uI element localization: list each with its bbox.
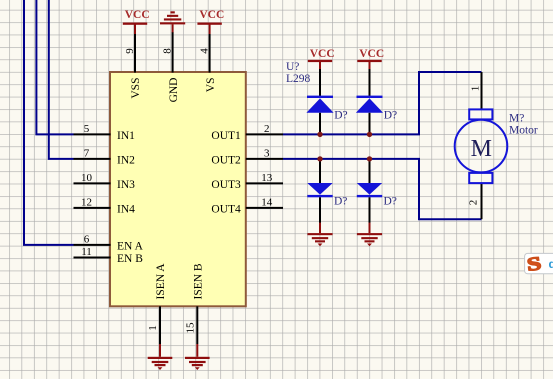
- svg-text:IN3: IN3: [117, 179, 135, 191]
- svg-text:11: 11: [81, 246, 92, 258]
- pin 7 IN2: [74, 147, 136, 166]
- svg-text:15: 15: [184, 322, 196, 334]
- svg-text:14: 14: [261, 196, 273, 208]
- wire net IN1 from top edge to IN1 pin: [36, 0, 73, 134]
- svg-text:13: 13: [261, 172, 273, 184]
- power port VCC: [357, 48, 384, 71]
- svg-text:D?: D?: [384, 195, 397, 207]
- svg-text:4: 4: [198, 48, 210, 54]
- pin 2 OUT1: [211, 123, 283, 142]
- pin 12 IN4: [74, 196, 136, 215]
- motor M? body: terminals, circle, M letter: [455, 109, 508, 183]
- svg-text:1: 1: [147, 325, 159, 331]
- svg-text:7: 7: [84, 147, 90, 159]
- svg-text:2: 2: [468, 200, 480, 206]
- pin 14 OUT4: [211, 196, 283, 215]
- svg-text:d: d: [549, 257, 553, 271]
- wire net EN A from top edge to EN A pin: [24, 0, 74, 245]
- svg-text:VCC: VCC: [310, 48, 335, 60]
- diode D? (flyback, cathode to VCC): [356, 69, 397, 134]
- motor M? pin 2: [468, 183, 482, 220]
- svg-text:Motor: Motor: [509, 124, 538, 136]
- svg-text:10: 10: [81, 172, 93, 184]
- svg-text:VCC: VCC: [199, 9, 224, 21]
- power ground (earth, bars down): [357, 223, 382, 247]
- pin 4 VS: [198, 34, 216, 92]
- svg-text:VCC: VCC: [125, 9, 150, 21]
- svg-text:VS: VS: [205, 78, 217, 93]
- diode D? (flyback, cathode to VCC): [306, 69, 347, 134]
- pin 3 OUT2: [211, 147, 283, 166]
- svg-text:9: 9: [124, 48, 136, 54]
- svg-text:L298: L298: [286, 73, 311, 85]
- svg-text:GND: GND: [168, 78, 180, 103]
- wire net OUT2 to motor terminal 2: [283, 159, 482, 219]
- power ground (earth, bars down): [307, 223, 332, 247]
- junction dot on OUT2 net: [367, 156, 372, 161]
- svg-text:S: S: [526, 252, 543, 275]
- svg-text:IN1: IN1: [117, 130, 135, 142]
- wire net OUT1 to motor terminal 1: [283, 72, 482, 134]
- IC U? L298 motor driver body: [110, 72, 246, 306]
- pin 13 OUT3: [211, 172, 283, 191]
- svg-text:OUT1: OUT1: [211, 130, 241, 142]
- power port VCC: [123, 9, 150, 34]
- svg-text:1: 1: [470, 86, 482, 92]
- svg-text:ISEN B: ISEN B: [193, 263, 205, 299]
- svg-text:M?: M?: [509, 112, 524, 124]
- svg-text:EN A: EN A: [117, 241, 144, 253]
- svg-text:OUT3: OUT3: [211, 179, 241, 191]
- svg-text:2: 2: [264, 123, 270, 135]
- pin 15 ISEN B: [184, 263, 204, 344]
- pin 5 IN1: [74, 123, 136, 142]
- power ground (earth, bars up): [160, 11, 185, 32]
- svg-text:3: 3: [264, 147, 270, 159]
- svg-text:12: 12: [81, 196, 92, 208]
- svg-text:D?: D?: [334, 110, 347, 122]
- junction dot on OUT2 net: [317, 156, 322, 161]
- pin 6 EN A: [74, 233, 144, 252]
- svg-text:IN4: IN4: [117, 204, 135, 216]
- svg-text:M: M: [471, 136, 492, 162]
- diode D? (flyback, anode from OUT2 net, cathode bar to ground): [307, 159, 347, 223]
- wire net IN2 from top edge to IN2 pin: [49, 0, 74, 159]
- svg-text:D?: D?: [334, 195, 347, 207]
- motor M? pin 1: [470, 72, 482, 110]
- power port VCC: [308, 48, 335, 71]
- svg-text:VSS: VSS: [130, 78, 142, 99]
- pin 11 EN B: [74, 246, 144, 265]
- ground symbol under ISEN pin: [148, 344, 173, 370]
- svg-text:6: 6: [84, 233, 90, 245]
- svg-text:8: 8: [161, 48, 173, 54]
- svg-text:OUT2: OUT2: [211, 155, 241, 167]
- ground symbol under ISEN pin: [185, 344, 210, 370]
- svg-text:EN B: EN B: [117, 253, 143, 265]
- power port VCC: [197, 9, 224, 34]
- junction dot on OUT1 net: [367, 132, 372, 137]
- svg-text:D?: D?: [384, 110, 397, 122]
- svg-text:ISEN A: ISEN A: [155, 263, 167, 300]
- pin 10 IN3: [74, 172, 136, 191]
- svg-text:U?: U?: [286, 61, 299, 73]
- svg-text:IN2: IN2: [117, 155, 135, 167]
- junction dot on OUT1 net: [317, 132, 322, 137]
- pin 1 ISEN A: [147, 263, 167, 344]
- pin 8 GND: [161, 32, 179, 102]
- pin 9 VSS: [124, 34, 142, 99]
- watermark overlay icon (orange S box): [525, 252, 553, 275]
- svg-text:5: 5: [84, 123, 90, 135]
- svg-text:VCC: VCC: [359, 48, 384, 60]
- diode D? (flyback, anode from OUT2 net, cathode bar to ground): [357, 159, 397, 223]
- svg-text:OUT4: OUT4: [211, 204, 241, 216]
